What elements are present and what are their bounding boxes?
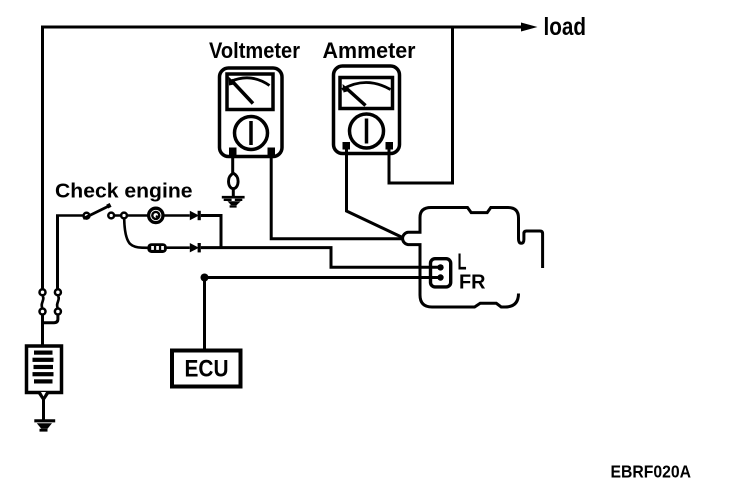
label: L pin	[458, 249, 467, 275]
alternator body outline	[403, 208, 543, 308]
svg-text:FR: FR	[459, 272, 486, 294]
connector circles on main feed wire	[40, 289, 46, 314]
diode D2	[190, 243, 201, 252]
meter M2: Ammeter body	[334, 66, 400, 154]
wire: check engine branch vertical from switch	[56, 216, 84, 289]
wire: ammeter negative lead diagonal to alternator tab	[347, 149, 403, 238]
wire: lower branch split curve	[124, 219, 148, 248]
wire: junction down to ECU	[203, 278, 206, 351]
wire: voltmeter negative lead down to probe	[231, 155, 234, 174]
diode D1	[190, 211, 201, 220]
connector: alternator 2-pin socket	[431, 259, 451, 287]
label: EBRF020A reference	[611, 462, 692, 482]
svg-text:ECU: ECU	[185, 356, 229, 383]
lamp L1: check engine bulb	[149, 208, 163, 222]
ground: voltmeter probe ground	[222, 197, 245, 207]
wire: lamp to diode D1	[164, 214, 190, 217]
svg-text:Voltmeter: Voltmeter	[209, 38, 300, 63]
meter M1: Voltmeter body	[220, 68, 283, 157]
label: FR pin	[459, 272, 486, 294]
wire: top branch to junction, down to lower branch	[201, 216, 221, 248]
probe tip on voltmeter lead	[229, 173, 239, 196]
wire: left vertical main feed	[41, 26, 44, 289]
switch S1	[83, 205, 110, 219]
wire: ammeter positive lead up to load bus	[389, 26, 453, 183]
svg-text:Check engine: Check engine	[55, 181, 193, 203]
resistor coil R1 (lamp dropping resistor)	[147, 243, 167, 253]
label: Ammeter	[323, 38, 416, 63]
wire: lamp circuit to alternator L terminal	[201, 248, 440, 268]
svg-text:load: load	[544, 13, 587, 41]
connector pair after switch	[108, 213, 127, 219]
connector circles on check engine wire	[55, 289, 61, 314]
wire: to check engine lamp	[127, 214, 148, 217]
svg-text:Ammeter: Ammeter	[323, 38, 416, 63]
label: Voltmeter	[209, 38, 300, 63]
node: ECU / FR junction dot	[201, 274, 209, 282]
ground: battery ground	[34, 421, 55, 432]
ECU box	[172, 351, 241, 387]
label: Check engine	[55, 181, 193, 203]
wire: merge to battery	[43, 315, 58, 346]
battery bottom terminal	[37, 392, 50, 420]
wire: FR line to alternator	[205, 276, 440, 279]
label: load	[544, 13, 587, 41]
wire: voltmeter positive lead to alternator tab	[271, 155, 402, 239]
wire: coil to diode D2	[167, 246, 190, 249]
battery B1	[27, 346, 62, 393]
wire: top bus from battery feed to load	[41, 23, 538, 32]
svg-text:EBRF020A: EBRF020A	[611, 462, 692, 482]
